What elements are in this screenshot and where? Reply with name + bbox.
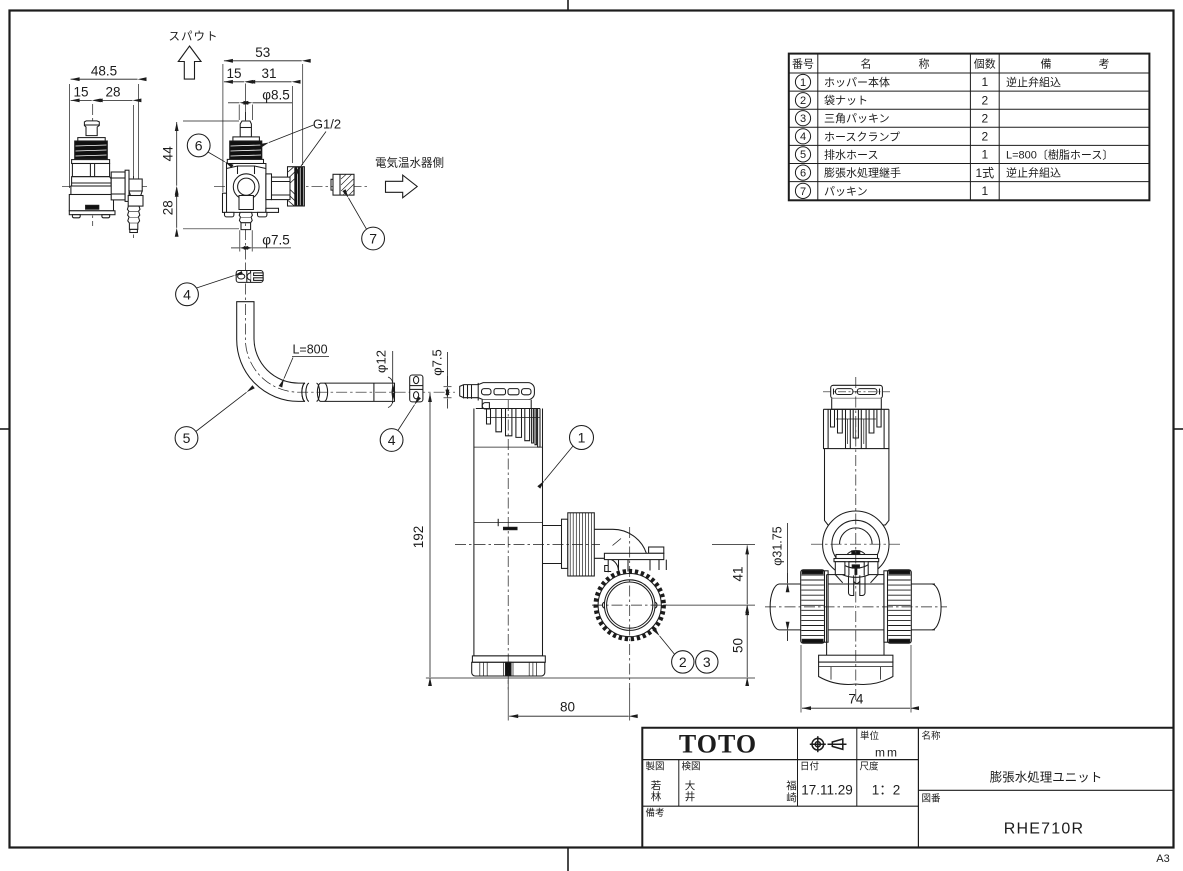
collar upper xyxy=(78,138,105,141)
svg-text:袋ナット: 袋ナット xyxy=(824,93,868,107)
svg-text:192: 192 xyxy=(411,526,426,549)
callout 7 xyxy=(349,198,385,250)
union nut edge-on circle xyxy=(823,511,889,577)
svg-text:φ12: φ12 xyxy=(374,350,389,373)
dim 48.5 xyxy=(70,79,139,188)
collar upper xyxy=(233,137,260,141)
barb down xyxy=(127,206,140,212)
lower center body xyxy=(827,575,884,657)
elbow xyxy=(594,529,666,572)
centerline ring horizontal xyxy=(592,604,667,606)
svg-text:1式: 1式 xyxy=(975,166,994,180)
centerline horizontal xyxy=(62,185,147,187)
svg-text:逆止弁組込: 逆止弁組込 xyxy=(1006,166,1061,180)
centerline union horizontal xyxy=(455,543,600,545)
svg-text:1: 1 xyxy=(981,75,988,89)
svg-text:製図: 製図 xyxy=(646,761,665,773)
valve body xyxy=(227,164,266,213)
right outlet neck xyxy=(266,174,272,200)
title block outer xyxy=(642,728,1173,848)
side view centerline union xyxy=(811,543,903,545)
callout 4 (right clamp) xyxy=(380,405,414,452)
callouts 2 and 3 xyxy=(660,636,718,673)
mid body xyxy=(72,177,112,186)
dim phi8.5 xyxy=(228,102,292,104)
parts table row 5 xyxy=(795,147,1113,162)
outlet flange xyxy=(125,170,129,201)
centerline vertical xyxy=(245,112,247,264)
svg-text:TOTO: TOTO xyxy=(679,730,757,759)
svg-text:2: 2 xyxy=(679,654,687,670)
svg-text:名称: 名称 xyxy=(922,730,942,742)
svg-text:φ7.5: φ7.5 xyxy=(262,233,290,248)
callout 1 xyxy=(545,426,594,481)
svg-text:7: 7 xyxy=(800,186,806,198)
svg-text:膨張水処理継手: 膨張水処理継手 xyxy=(824,166,901,180)
svg-text:単位: 単位 xyxy=(860,730,880,742)
parts table row 4 xyxy=(795,129,988,144)
svg-text:50: 50 xyxy=(731,638,746,653)
TITLE BLOCK xyxy=(642,728,1173,865)
svg-text:1: 1 xyxy=(981,184,988,198)
svg-text:5: 5 xyxy=(800,149,806,161)
parts table row 2 xyxy=(795,93,988,108)
svg-text:2: 2 xyxy=(981,93,988,107)
svg-text:φ31.75: φ31.75 xyxy=(771,526,785,565)
svg-text:A3: A3 xyxy=(1156,853,1169,865)
svg-text:RHE710R: RHE710R xyxy=(1004,821,1084,838)
parts table row 6 xyxy=(795,165,1061,180)
svg-text:福: 福 xyxy=(786,779,797,792)
frame center tick right xyxy=(1174,428,1183,430)
side view centerline horizontal pipe xyxy=(765,606,947,608)
centerline vertical body xyxy=(92,104,94,226)
frame center tick bottom xyxy=(567,848,569,871)
parts table row lines xyxy=(789,72,1150,74)
svg-text:44: 44 xyxy=(161,146,176,162)
side view crown ribs xyxy=(824,409,889,448)
frame center tick left xyxy=(0,428,10,430)
dim 50 xyxy=(746,606,748,677)
centerline right barb xyxy=(133,176,135,238)
male thread black xyxy=(230,141,262,159)
side view centerline vertical xyxy=(855,377,857,700)
svg-text:7: 7 xyxy=(369,231,377,247)
bottom barb xyxy=(239,212,252,217)
dim 15 / 28 xyxy=(71,100,134,178)
base box xyxy=(69,195,113,211)
svg-text:電気温水器側: 電気温水器側 xyxy=(375,156,444,170)
svg-text:φ8.5: φ8.5 xyxy=(262,88,290,103)
hopper bottom cap xyxy=(472,656,546,676)
side outlet xyxy=(111,172,125,200)
left bracket xyxy=(223,193,227,212)
svg-text:崎: 崎 xyxy=(786,791,797,804)
collar lower xyxy=(72,160,110,164)
svg-text:1: 1 xyxy=(800,77,806,89)
dim 53 xyxy=(223,61,303,192)
callout 5 xyxy=(175,392,246,449)
svg-text:図番: 図番 xyxy=(922,793,942,805)
base plate xyxy=(69,211,115,215)
svg-text:備: 備 xyxy=(1041,58,1052,71)
packing item 7 xyxy=(331,174,354,195)
svg-text:逆止弁組込: 逆止弁組込 xyxy=(1006,75,1061,89)
svg-text:4: 4 xyxy=(183,286,191,302)
svg-text:1：2: 1：2 xyxy=(872,783,901,798)
svg-text:3: 3 xyxy=(703,654,711,670)
svg-text:15: 15 xyxy=(226,66,241,81)
svg-text:15: 15 xyxy=(73,85,88,100)
hose centerline xyxy=(245,304,455,392)
centerline horizontal through valve and packing xyxy=(214,186,367,188)
svg-text:番号: 番号 xyxy=(792,58,814,71)
svg-text:L=800: L=800 xyxy=(292,343,327,357)
svg-text:検図: 検図 xyxy=(682,761,701,773)
svg-text:41: 41 xyxy=(731,566,746,581)
parts table header text xyxy=(792,57,1110,71)
svg-text:2: 2 xyxy=(981,130,988,144)
parts table row 7 xyxy=(795,183,988,198)
spout up arrow xyxy=(178,46,201,79)
svg-text:2: 2 xyxy=(981,112,988,126)
right outlet cylinder xyxy=(272,177,291,200)
top stub xyxy=(240,121,251,137)
bottom flange xyxy=(819,655,893,662)
centerline ring vertical xyxy=(629,527,631,690)
union nut ribs xyxy=(570,513,591,576)
hose clamp (top, item 4) xyxy=(236,271,263,283)
check valve bracket xyxy=(834,551,879,596)
collar lower xyxy=(227,159,263,163)
parts table column lines xyxy=(817,54,819,201)
svg-text:名: 名 xyxy=(861,57,872,71)
PARTS TABLE xyxy=(789,54,1150,201)
centerline from valve to hose top xyxy=(245,264,247,304)
svg-text:個数: 個数 xyxy=(974,58,996,71)
dim phi12 xyxy=(388,351,393,408)
VIEW D : hopper side view xyxy=(765,377,947,713)
horizontal pipe xyxy=(770,584,941,630)
svg-text:74: 74 xyxy=(848,692,864,707)
centerline hopper vertical xyxy=(507,400,509,690)
feet under body xyxy=(225,212,234,217)
dim 74 xyxy=(801,645,911,713)
outlet connector xyxy=(129,179,142,191)
parts table row 1 xyxy=(795,74,1061,89)
left knurled nut xyxy=(801,570,828,643)
dim 15 / 31 xyxy=(224,82,293,163)
dim phi7.5 bottom xyxy=(231,230,291,251)
right bracket plate xyxy=(266,208,279,212)
svg-text:L=800〔樹脂ホース〕: L=800〔樹脂ホース〕 xyxy=(1006,147,1113,161)
svg-text:パッキン: パッキン xyxy=(824,185,868,198)
side view neck xyxy=(832,398,882,409)
callout 6 xyxy=(187,134,225,162)
dim 44 / 28 xyxy=(177,121,239,229)
svg-text:ホースクランプ: ホースクランプ xyxy=(824,130,900,143)
svg-text:mm: mm xyxy=(875,746,899,760)
svg-text:G1/2: G1/2 xyxy=(313,117,341,132)
feet xyxy=(72,215,80,218)
svg-text:日付: 日付 xyxy=(800,762,820,773)
svg-text:称: 称 xyxy=(919,57,930,71)
svg-text:48.5: 48.5 xyxy=(91,64,117,79)
VIEW A : top-left side view of fitting xyxy=(62,64,147,239)
svg-text:考: 考 xyxy=(1099,58,1110,71)
title block small labels xyxy=(646,730,942,819)
svg-text:3: 3 xyxy=(800,113,806,125)
upper body xyxy=(72,164,109,177)
svg-text:尺度: 尺度 xyxy=(860,761,880,773)
svg-text:53: 53 xyxy=(255,45,270,60)
svg-text:井: 井 xyxy=(685,790,696,803)
callout 4 (top clamp) xyxy=(176,276,234,306)
hopper neck xyxy=(482,400,531,409)
hose barb top xyxy=(84,121,99,136)
svg-text:4: 4 xyxy=(388,432,396,448)
dim 192 xyxy=(426,393,755,678)
svg-text:2: 2 xyxy=(800,95,806,107)
G1/2 nut hatched xyxy=(288,167,305,206)
svg-text:1: 1 xyxy=(981,148,988,162)
dim 41 xyxy=(663,544,755,605)
ball circle xyxy=(233,174,259,200)
svg-text:林: 林 xyxy=(651,790,662,803)
svg-text:28: 28 xyxy=(105,85,120,100)
svg-text:28: 28 xyxy=(161,200,176,215)
union boss right xyxy=(543,526,562,564)
hopper top hose connector xyxy=(460,383,535,409)
right hollow arrow xyxy=(386,175,418,198)
dim phi31.75 xyxy=(787,523,789,641)
male thread (black) xyxy=(75,141,108,159)
frame center tick top xyxy=(567,0,569,11)
union nut (item 2) xyxy=(568,513,595,576)
drain hose item 5 (bent tube) xyxy=(237,302,395,402)
dim phi7.5 (at hopper barb) xyxy=(444,352,452,409)
lower body xyxy=(71,186,113,195)
right knurled nut xyxy=(884,570,911,643)
svg-text:80: 80 xyxy=(560,700,575,715)
svg-text:5: 5 xyxy=(183,430,191,446)
svg-text:4: 4 xyxy=(800,131,806,143)
bottom lock nut xyxy=(819,662,893,684)
svg-text:31: 31 xyxy=(261,66,276,81)
svg-text:6: 6 xyxy=(195,137,203,153)
svg-text:備考: 備考 xyxy=(646,807,665,819)
svg-text:1: 1 xyxy=(578,430,586,446)
svg-text:膨張水処理ユニット: 膨張水処理ユニット xyxy=(990,771,1103,785)
parts table outer border xyxy=(789,54,1150,201)
third-angle projection symbol xyxy=(810,736,847,752)
side view body xyxy=(825,449,889,525)
svg-text:ホッパー本体: ホッパー本体 xyxy=(824,75,890,89)
dim 80 xyxy=(508,680,630,721)
HOSE assembly xyxy=(175,264,455,451)
parts table row 3 xyxy=(795,111,988,126)
hopper crown ribs xyxy=(476,409,540,448)
svg-text:6: 6 xyxy=(800,167,806,179)
svg-text:三角パッキン: 三角パッキン xyxy=(824,112,890,125)
VIEW B : top-center front view of fitting xyxy=(161,30,445,264)
svg-text:スパウト: スパウト xyxy=(169,30,219,43)
svg-text:φ7.5: φ7.5 xyxy=(430,349,445,376)
side view top clamp xyxy=(831,385,883,398)
hose clamp (right, item 4) xyxy=(410,375,423,402)
svg-text:排水ホース: 排水ホース xyxy=(824,147,878,161)
title block dividers xyxy=(917,728,919,848)
svg-text:17.11.29: 17.11.29 xyxy=(801,783,853,798)
hopper body (item 1) xyxy=(474,409,594,656)
serrated lock nut (items 2,3) xyxy=(596,571,664,639)
VIEW C : hopper front view xyxy=(411,383,755,721)
